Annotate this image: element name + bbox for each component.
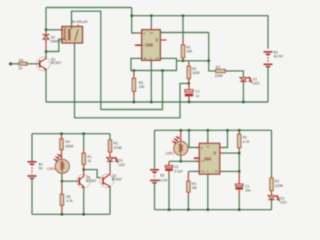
svg-text:BC547: BC547 — [112, 178, 122, 182]
wire node to Q1 base (c2) — [62, 180, 79, 182]
resistor R4 390R (c2) — [60, 134, 63, 160]
svg-text:G: G — [207, 170, 209, 173]
svg-text:LDR2: LDR2 — [165, 151, 174, 155]
svg-text:R: R — [143, 33, 145, 36]
transistor Q1 BC547 (top circuit) — [36, 57, 50, 71]
node rail C at IC vcc — [150, 15, 152, 17]
node reset riser top (c3) — [188, 129, 190, 131]
wire IC gnd pin down — [150, 62, 152, 102]
node R3 bottom (c2) — [61, 213, 63, 215]
node R3 bottom — [133, 101, 135, 103]
wire left frame upper (c3) — [154, 130, 156, 170]
capacitor C1 1u — [185, 83, 193, 102]
wire R1 bottom down to TH node — [238, 153, 240, 171]
wire DIS pin to R1 bottom — [223, 152, 240, 154]
wire frame bottom rail (c2) — [32, 213, 110, 215]
wire 220R to LED — [225, 71, 243, 78]
svg-text:LDR1: LDR1 — [47, 167, 56, 171]
node IC gnd rail (c3) — [207, 209, 209, 211]
node trigger junction (c3) — [180, 160, 182, 162]
svg-text:R2: R2 — [216, 65, 220, 69]
wire top rail A (collector net) — [46, 7, 132, 9]
svg-text:10K: 10K — [139, 85, 146, 89]
wire junction to relay coil pin1 — [46, 29, 59, 31]
wire LDR1 bottom to node — [61, 173, 63, 181]
node R1 bottom (c3) — [238, 152, 240, 154]
node LED gnd — [242, 101, 244, 103]
wire Q1 emitter to bottom rail — [83, 187, 85, 214]
node out riser top (c3) — [226, 129, 228, 131]
transistor Q1 BC547 (c2) — [77, 170, 91, 189]
wire collector node to Q2 base — [84, 170, 101, 178]
node R1 bottom tee — [182, 60, 184, 62]
wire R4 to Q1 base — [27, 63, 39, 65]
wire rail2 to trigger net riser — [101, 71, 163, 110]
resistor R4 1K — [19, 62, 27, 65]
LED D1 (c3) — [268, 195, 279, 200]
svg-text:TH: TH — [215, 170, 218, 173]
svg-text:BC547: BC547 — [51, 61, 61, 65]
wire left frame lower (c3) — [154, 183, 156, 210]
wire right frame top (c3) — [271, 130, 273, 178]
resistor R1 1k (c2) — [82, 134, 85, 170]
capacitor C2 0.1uF — [165, 161, 173, 209]
LED D1 (top) — [240, 77, 252, 82]
wire Q1 emitter to ground rail1 — [45, 70, 47, 102]
svg-text:220R: 220R — [215, 74, 224, 78]
svg-text:LED: LED — [280, 201, 287, 205]
resistor R1 4.7K (c3) — [238, 130, 241, 153]
wire input to R4 — [11, 63, 20, 65]
wire IC vcc pin (c3) — [207, 130, 209, 141]
svg-text:10u: 10u — [245, 188, 251, 192]
svg-text:100K: 100K — [192, 71, 201, 75]
wire LDR2 bottom to trigger node — [180, 155, 182, 161]
node R1 top (c2) — [83, 133, 85, 135]
LDR1 — [54, 154, 70, 173]
wire bottom rail (c3) — [155, 209, 272, 211]
svg-text:555: 555 — [146, 43, 154, 48]
svg-text:1M: 1M — [192, 186, 197, 190]
svg-text:6V-9V: 6V-9V — [158, 178, 168, 182]
node R3 top tee — [133, 69, 135, 71]
wire TH pin to node (c3) — [223, 170, 240, 172]
svg-text:1u: 1u — [195, 94, 199, 98]
wire top rail (c3) — [155, 129, 272, 131]
wire TR pin to R3 (c3) — [188, 170, 199, 172]
node IC vcc top (c3) — [207, 129, 209, 131]
wire left drop from rail A to Q1 collector — [45, 8, 47, 31]
svg-text:4.7k: 4.7k — [66, 199, 73, 203]
svg-text:R3: R3 — [192, 182, 196, 186]
svg-text:TR: TR — [143, 57, 146, 60]
wire LED to Q2 collector — [109, 161, 111, 168]
battery B1 6V-9V — [264, 52, 273, 67]
wire trigger node horizontal — [169, 160, 199, 162]
svg-text:555: 555 — [204, 156, 212, 161]
svg-text:R1: R1 — [243, 136, 247, 140]
svg-text:R: R — [201, 147, 203, 150]
node junction D2 top — [45, 29, 47, 31]
wire ground rail1 — [46, 101, 268, 103]
node C1 bottom — [188, 101, 190, 103]
node trigger riser tee — [161, 69, 163, 71]
resistor R3 10K — [132, 71, 135, 103]
wire IC top pin — [150, 16, 152, 27]
wire frame right / R2 chain top (c2) — [109, 134, 111, 140]
wire IC out pin right and down — [160, 33, 215, 71]
node C1 bottom gnd (c3) — [238, 209, 240, 211]
resistor R2 220R (c3) — [270, 178, 273, 196]
node TH junction (c3) — [238, 170, 240, 172]
resistor R5 220R — [216, 69, 226, 72]
wire IC gnd pin down (c3) — [207, 176, 209, 210]
svg-text:4.7K: 4.7K — [243, 140, 251, 144]
svg-text:R2: R2 — [275, 180, 279, 184]
node output net tee — [208, 60, 210, 62]
svg-text:390R: 390R — [65, 145, 74, 149]
resistor R2 100K — [187, 61, 190, 84]
capacitor C1 10u (c3) — [235, 171, 243, 209]
wire LED to bottom rail (c3) — [271, 200, 273, 210]
node C2 bottom gnd — [168, 209, 170, 211]
input node — [9, 63, 12, 66]
wire rail C vcc — [132, 8, 138, 34]
relay RL1 5V — [59, 25, 83, 46]
svg-text:6V-9V: 6V-9V — [274, 55, 284, 59]
node R4 top (c2) — [60, 133, 62, 135]
battery B1 9V (c2) — [28, 162, 37, 179]
svg-text:10K: 10K — [186, 50, 193, 54]
wire frame top rail (c2) — [32, 133, 110, 135]
svg-text:220R: 220R — [275, 184, 284, 188]
svg-text:LED: LED — [118, 163, 125, 167]
node Q1 emitter gnd — [83, 213, 85, 215]
wire relay common pin down to rail3 — [75, 45, 190, 118]
IC U2 555 timer — [194, 141, 224, 177]
node Q1 collector / Q2 base net — [83, 168, 85, 170]
wire rail B relay contact — [72, 11, 101, 109]
svg-text:B2: B2 — [160, 173, 164, 177]
LDR2 — [172, 130, 188, 155]
svg-text:VC: VC — [206, 146, 210, 149]
node gnd rail at IC — [150, 101, 152, 103]
wire LED to ground rail — [242, 81, 244, 102]
wire TH/TR horizontal net — [177, 60, 209, 62]
svg-text:1k: 1k — [87, 159, 91, 163]
node rail C at R1 top — [182, 15, 184, 17]
resistor R2 470R (c2) — [108, 140, 111, 158]
svg-text:G: G — [150, 57, 152, 60]
node junction D2 bottom — [45, 50, 47, 52]
resistor R3 1M (c3) — [187, 171, 190, 209]
svg-text:1N4007: 1N4007 — [50, 40, 62, 44]
svg-text:0.1uF: 0.1uF — [174, 170, 183, 174]
wire reset pin L (c3) — [189, 130, 199, 147]
IC U1 555 timer — [135, 27, 167, 63]
svg-text:R2: R2 — [114, 142, 118, 146]
LED D1 (c2) — [107, 157, 118, 162]
wire Q2 emitter to bottom rail (c2) — [109, 187, 111, 215]
svg-text:5V RELAY: 5V RELAY — [72, 20, 89, 24]
wire IC pin2 loop below — [131, 58, 177, 70]
node rail C at riser — [131, 15, 133, 17]
transistor Q2 BC547 (c2) — [100, 169, 114, 188]
wire junction to relay coil pin2 — [46, 39, 62, 51]
wire IC out pin up to rail (c3) — [223, 130, 228, 147]
wire frame left upper (c2) — [31, 134, 33, 162]
node R3 bottom gnd (c3) — [187, 209, 189, 211]
resistor R3 4.7k (c2) — [60, 181, 63, 214]
svg-text:BC547: BC547 — [86, 179, 96, 183]
resistor R1 10K — [181, 16, 184, 61]
svg-text:R4: R4 — [65, 140, 69, 144]
svg-text:9V: 9V — [39, 167, 44, 171]
svg-text:R1: R1 — [87, 155, 91, 159]
node cap C1 top junction — [188, 82, 190, 84]
node LDR2 top — [180, 129, 182, 131]
svg-text:TH: TH — [156, 57, 159, 60]
svg-text:R3: R3 — [66, 195, 70, 199]
wire battery minus to ground — [267, 67, 269, 102]
svg-text:LED: LED — [253, 82, 260, 86]
node R1 top rail (c3) — [238, 129, 240, 131]
node LDR/R3/base junction — [61, 180, 63, 182]
svg-text:VC: VC — [150, 32, 154, 35]
svg-text:R4: R4 — [19, 58, 23, 62]
svg-text:1K: 1K — [18, 67, 23, 71]
svg-text:C2: C2 — [174, 165, 178, 169]
diode D2 1N4007 — [43, 31, 49, 51]
battery B2 6V-9V — [150, 170, 159, 183]
svg-text:470R: 470R — [114, 146, 123, 150]
svg-text:TR: TR — [201, 170, 204, 173]
wire frame left lower (c2) — [31, 178, 33, 214]
